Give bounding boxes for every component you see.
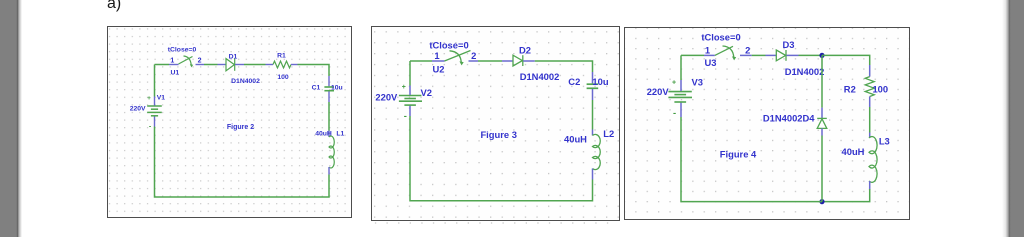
panel 3 background and dot grid (624, 27, 910, 220)
svg-text:D3: D3 (783, 39, 795, 50)
junction node dot (top, D4 branch) (819, 53, 824, 58)
diode D4 cathode pin stub (821, 108, 823, 118)
wire: source top to top-left corner (680, 55, 682, 80)
wire: switch to diode (204, 64, 218, 66)
diode D1 symbol (226, 59, 235, 71)
switch U1 pin 2 stub (196, 64, 205, 66)
diode D1 cathode pin stub (235, 64, 244, 66)
svg-text:D1N4002: D1N4002 (231, 78, 260, 85)
diode D2 anode pin stub (502, 60, 513, 62)
inductor L3 top pin stub (869, 133, 871, 139)
svg-text:C2: C2 (568, 76, 580, 87)
svg-text:V3: V3 (692, 76, 703, 87)
switch U2 pin 1 stub (432, 60, 445, 62)
svg-text:Figure 2: Figure 2 (227, 124, 254, 131)
wire: switch to diode (752, 54, 766, 56)
wire: inductor down to bottom-right corner and left to junction (822, 189, 870, 202)
svg-text:1: 1 (705, 44, 710, 55)
diode D4 anode pin stub (821, 128, 823, 135)
inductor L3 bottom pin stub (869, 181, 871, 190)
svg-text:40uH: 40uH (842, 146, 865, 157)
switch U1 pin 1 stub (169, 64, 179, 66)
diode D3 cathode pin stub (786, 54, 798, 56)
svg-text:2: 2 (471, 50, 476, 61)
svg-text:220V: 220V (647, 86, 670, 97)
resistor R2 zigzag body (865, 77, 874, 97)
svg-text:Figure 4: Figure 4 (720, 148, 757, 159)
svg-text:V1: V1 (157, 94, 166, 101)
source V3 bottom pin stub (680, 103, 682, 117)
svg-text:U3: U3 (705, 57, 717, 68)
source V2 bottom pin stub (409, 106, 411, 116)
wire: source top to top-left corner (154, 65, 156, 97)
wire: diode D4 down to bottom junction (821, 136, 823, 202)
svg-text:10u: 10u (592, 76, 608, 87)
panel 3 border frame (625, 28, 910, 220)
capacitor C1 top pin stub (328, 76, 330, 86)
diode D4 symbol (pointing up) (817, 118, 827, 128)
svg-text:U2: U2 (433, 64, 445, 75)
inductor L2 coil (593, 134, 601, 169)
inductor L1 bottom pin stub (328, 167, 330, 175)
svg-text:220V: 220V (375, 91, 398, 102)
source V1 top pin stub (154, 97, 156, 106)
svg-text:L3: L3 (879, 136, 890, 147)
svg-text:40uH: 40uH (564, 134, 587, 145)
list marker a) (107, 0, 121, 13)
inductor L1 top pin stub (328, 131, 330, 138)
svg-text:U1: U1 (170, 69, 179, 76)
junction node dot (bottom, D4 branch) (819, 199, 824, 204)
switch U2 blade and action arrow (445, 51, 471, 66)
svg-text:V2: V2 (421, 87, 432, 98)
svg-text:R2: R2 (844, 83, 856, 94)
switch U3 pin 2 stub (740, 54, 752, 56)
panel 2 background and dot grid (371, 26, 620, 221)
left gray margin bar (0, 0, 22, 237)
diode D3 symbol (776, 50, 786, 61)
svg-text:-: - (404, 110, 407, 121)
svg-text:2: 2 (745, 44, 750, 55)
diode D3 anode pin stub (766, 54, 777, 56)
svg-text:tClose=0: tClose=0 (168, 47, 197, 54)
svg-text:C1: C1 (312, 84, 321, 91)
svg-text:10u: 10u (331, 84, 343, 91)
panel 2 border frame (372, 27, 620, 221)
inductor L1 coil (329, 136, 334, 168)
svg-text:100: 100 (872, 83, 888, 94)
wire: junction to top-right corner and down to R2 (822, 55, 870, 65)
wire: inductor to bottom wire and up to source (410, 116, 593, 201)
svg-text:-: - (673, 107, 676, 118)
source V2 top pin stub (409, 86, 411, 96)
svg-text:L1: L1 (336, 130, 344, 137)
svg-text:+: + (672, 80, 676, 87)
inductor L3 coil (869, 137, 877, 183)
inductor L2 bottom pin stub (592, 169, 594, 180)
resistor R1 right pin stub (291, 64, 298, 66)
wire: bottom wire from junction left and up to source (681, 117, 822, 202)
source V2 battery plates (399, 96, 422, 106)
switch U1 blade and action arrow (179, 56, 194, 67)
resistor R1 zigzag body (273, 61, 291, 68)
wire: capacitor to inductor (592, 100, 594, 130)
svg-text:D1N4002: D1N4002 (520, 71, 560, 82)
resistor R1 left pin stub (266, 64, 274, 66)
wire: source top to top-left corner (409, 61, 411, 86)
svg-text:L2: L2 (603, 128, 614, 139)
svg-text:1: 1 (170, 57, 174, 64)
resistor R2 bottom pin stub (869, 97, 871, 108)
panel 1 border frame (108, 27, 352, 218)
source V3 top pin stub (680, 80, 682, 91)
capacitor C1 bottom pin stub (328, 91, 330, 102)
switch U3 pin 1 stub (704, 54, 715, 56)
diode D2 cathode pin stub (523, 60, 535, 62)
wire: diode to top-right corner and down (535, 61, 593, 72)
wire: resistor to top-right corner and down (298, 65, 330, 77)
capacitor C1 plates (324, 87, 334, 91)
inductor L2 top pin stub (592, 130, 594, 136)
wire: diode to resistor (244, 64, 266, 66)
switch U3 blade and action arrow (715, 46, 736, 60)
capacitor C2 bottom pin stub (592, 89, 594, 100)
svg-text:2: 2 (198, 57, 202, 64)
svg-text:+: + (402, 84, 406, 91)
svg-text:220V: 220V (130, 105, 146, 112)
capacitor C2 plates (587, 84, 599, 88)
wire: inductor to bottom-right corner, bottom wire, up to source (155, 127, 330, 198)
svg-text:+: + (147, 95, 151, 102)
right gray margin bar (1002, 0, 1024, 237)
svg-text:D1: D1 (229, 54, 238, 61)
svg-text:R1: R1 (277, 53, 286, 60)
svg-text:40uH: 40uH (315, 130, 332, 137)
wire: top-left segment from source to switch (155, 64, 170, 66)
wire: capacitor to inductor (328, 102, 330, 131)
wire: resistor to inductor (869, 107, 871, 133)
svg-text:D2: D2 (519, 45, 531, 56)
svg-text:1: 1 (434, 50, 439, 61)
diode D2 symbol (513, 55, 523, 66)
wire: source to switch (top-left) (681, 54, 704, 56)
svg-text:Figure 3: Figure 3 (480, 129, 516, 140)
svg-text:100: 100 (277, 74, 289, 81)
wire: switch to diode (478, 60, 502, 62)
wire: diode to junction node (799, 54, 823, 56)
stray grid dot row below panel 2 border (375, 222, 617, 224)
wire: source to switch (top-left) (410, 60, 432, 62)
diode D1 anode pin stub (218, 64, 227, 66)
svg-text:D1N4002D4: D1N4002D4 (763, 113, 815, 124)
svg-text:D1N4002: D1N4002 (785, 66, 825, 77)
source V1 bottom pin stub (154, 116, 156, 127)
wire: top junction down to diode D4 (821, 55, 823, 107)
panel 1 background and dot grid (107, 26, 352, 218)
source V3 battery plates (668, 92, 692, 102)
resistor R2 top pin stub (869, 65, 871, 77)
svg-text:tClose=0: tClose=0 (701, 32, 740, 43)
source V1 battery plates (147, 106, 162, 116)
switch U2 pin 2 stub (469, 60, 479, 62)
capacitor C2 top pin stub (592, 72, 594, 83)
